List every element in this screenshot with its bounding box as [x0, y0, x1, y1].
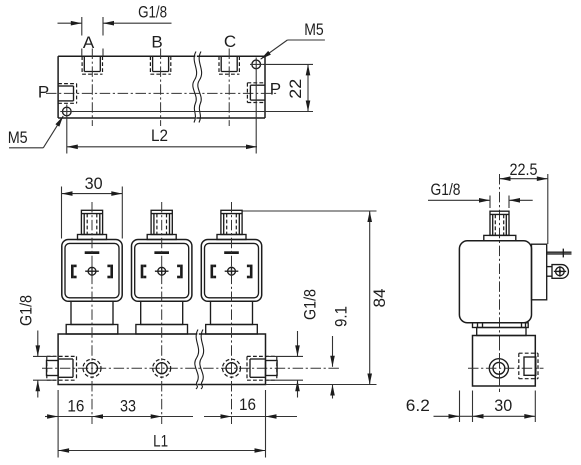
valve 2 neck: [141, 301, 183, 324]
side view vertical centerline (redrawn over base): [499, 340, 501, 392]
manifold rail (front view): [58, 334, 265, 385]
valve 1 centerline: [91, 202, 93, 424]
dimension G1/8 right side port: [267, 289, 320, 398]
connector ground lug: [547, 265, 569, 279]
valve 1 center screw: [85, 266, 99, 276]
valve 1 left terminal mark: [71, 265, 77, 279]
valve 2 base: [136, 325, 188, 335]
svg-text:L1: L1: [153, 432, 168, 451]
valve 1 right terminal mark: [107, 265, 113, 279]
break line (front view rail): [195, 330, 204, 390]
valve 1 threaded stem: [81, 210, 102, 234]
svg-text:P: P: [38, 83, 49, 102]
manifold block (top view): [58, 56, 265, 118]
dimension L1 (overall length): [58, 432, 265, 451]
valve 1 face slot bar: [85, 251, 100, 254]
valve 2 right terminal mark: [177, 265, 183, 279]
port P right (top view): [247, 83, 265, 103]
svg-text:9.1: 9.1: [332, 306, 351, 327]
side view adapter plate: [473, 323, 529, 328]
dimension 22.5 (center to connector): [500, 160, 548, 244]
valve 2 face slot bar: [154, 251, 169, 254]
dimension 84 (overall height): [243, 211, 390, 385]
outlet screw port 2 (front view): [153, 359, 171, 377]
port A (G1/8 tapped hole, top view): [82, 56, 102, 74]
valve 3 connector body: [201, 240, 261, 302]
dimension G1/8 (side stem): [428, 180, 533, 208]
valve 3 right terminal mark: [247, 265, 253, 279]
centerline of port C: [228, 49, 230, 127]
valve 1 base: [66, 325, 118, 335]
valve 3 threaded stem: [221, 210, 242, 234]
svg-text:L2: L2: [151, 126, 168, 145]
horizontal centerline of P ports (top view): [46, 92, 278, 94]
valve 3 center screw: [225, 266, 239, 276]
valve 3 neck: [211, 301, 253, 324]
svg-text:B: B: [151, 33, 162, 52]
outlet screw port 3 (front view): [223, 359, 241, 377]
side view base block: [473, 336, 536, 387]
svg-text:16: 16: [67, 396, 84, 415]
svg-text:G1/8: G1/8: [138, 3, 167, 22]
svg-text:C: C: [224, 32, 236, 51]
svg-text:P: P: [270, 80, 281, 99]
valve 3 stem flange: [217, 235, 246, 240]
valve 3 face slot bar: [224, 251, 239, 254]
leader M5 top-right: [261, 20, 325, 59]
valve 2 stem flange: [147, 235, 176, 240]
valve 2 connector face: [135, 243, 189, 297]
horizontal centerline (front view ports): [42, 367, 340, 369]
svg-text:30: 30: [85, 174, 103, 193]
port P left (top view): [58, 84, 77, 104]
dimension L2 (M5 hole spacing): [67, 72, 257, 154]
P port fitting right (front view): [247, 356, 277, 380]
break line (top view): [193, 52, 202, 123]
valve 2 center screw: [155, 266, 169, 276]
svg-text:G1/8: G1/8: [301, 289, 320, 320]
side view neck: [477, 328, 526, 336]
valve 3 centerline: [231, 202, 233, 424]
svg-text:22: 22: [286, 79, 305, 99]
svg-text:G1/8: G1/8: [16, 295, 35, 326]
connector pin: [547, 249, 572, 258]
valve 1 neck: [71, 301, 113, 324]
svg-text:33: 33: [120, 396, 136, 415]
side view threaded stem: [490, 211, 509, 235]
centerline of port B: [160, 49, 162, 127]
svg-text:22.5: 22.5: [510, 160, 538, 179]
svg-text:84: 84: [370, 289, 389, 308]
svg-text:16: 16: [239, 395, 256, 414]
outlet screw port 1 (front view): [83, 359, 101, 377]
port C (G1/8 tapped hole, top view): [219, 56, 239, 74]
valve 2 left terminal mark: [141, 265, 147, 279]
M5 mounting hole top-right: [250, 58, 263, 72]
dimension 9.1 (port center to base): [332, 306, 351, 399]
valve 3 left terminal mark: [211, 265, 217, 279]
valve 1 connector face: [65, 243, 119, 297]
M5 mounting hole bottom-left: [60, 105, 74, 119]
svg-text:6.2: 6.2: [406, 396, 430, 415]
side view centerline: [499, 174, 501, 392]
side view side port (hidden): [519, 353, 538, 379]
side view connector tab: [532, 244, 547, 300]
port B (G1/8 tapped hole, top view): [150, 56, 170, 74]
dimension G1/8 (top ports): [58, 3, 172, 57]
side view port horizontal centerline: [468, 367, 544, 369]
dimension chain 16 / 33 / 16 (bottom): [45, 390, 297, 458]
side view coil body: [459, 241, 531, 323]
dimensions 6.2 and 30 (side view bottom): [406, 391, 536, 423]
svg-text:30: 30: [494, 396, 512, 415]
valve 2 threaded stem: [151, 210, 172, 234]
leader M5 bottom-left: [8, 116, 64, 148]
valve 3 connector face: [205, 243, 259, 297]
valve 1 stem flange: [78, 235, 107, 240]
valve 2 centerline: [161, 202, 163, 424]
valve 1 connector body: [62, 240, 122, 302]
dimension 22 (M5 hole offset, top view): [74, 64, 313, 111]
valve 3 base: [206, 325, 258, 335]
dimension 30 (valve width): [62, 174, 123, 239]
svg-text:M5: M5: [8, 128, 28, 147]
svg-text:A: A: [83, 33, 95, 52]
svg-text:M5: M5: [304, 20, 324, 39]
valve 2 connector body: [132, 240, 192, 302]
svg-text:G1/8: G1/8: [431, 180, 461, 199]
dimension G1/8 left side port: [16, 295, 56, 398]
side view outlet screw: [489, 359, 508, 378]
side view stem flange: [484, 235, 516, 240]
centerline of port A: [91, 49, 93, 127]
P port fitting left (front view): [47, 356, 77, 380]
